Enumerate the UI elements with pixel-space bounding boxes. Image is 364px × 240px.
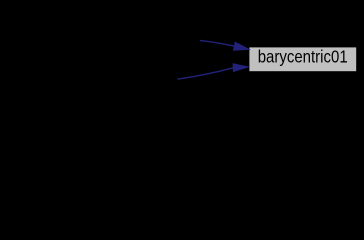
wire [200,40,234,46]
edge 1 (upper arrow) [200,40,249,50]
svg-text:barycentric01: barycentric01 [258,47,348,67]
arrowhead [233,64,248,72]
wire [178,68,234,79]
arrowhead [234,42,250,50]
node barycentric01 [249,47,357,72]
edge 2 (lower arrow) [178,64,249,79]
